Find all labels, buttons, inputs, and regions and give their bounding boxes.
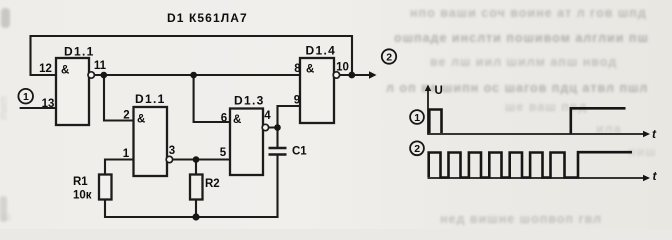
svg-text:2: 2 [123, 110, 129, 122]
svg-text:D1.1: D1.1 [135, 92, 166, 106]
svg-text:t: t [653, 169, 658, 183]
svg-text:12: 12 [39, 63, 52, 75]
svg-text:4: 4 [264, 110, 271, 122]
svg-text:шиш: шиш [0, 96, 10, 120]
svg-text:ошпаде инслти пошивом алглии п: ошпаде инслти пошивом алглии пш [394, 31, 649, 45]
svg-text:C1: C1 [292, 146, 307, 158]
svg-text:3: 3 [169, 145, 175, 157]
svg-text:2: 2 [386, 51, 392, 63]
svg-text:&: & [306, 64, 314, 76]
svg-text:13: 13 [42, 98, 55, 110]
svg-text:11: 11 [94, 60, 107, 72]
svg-text:10: 10 [336, 62, 349, 74]
svg-text:2: 2 [414, 143, 420, 155]
svg-text:D1.1: D1.1 [64, 45, 95, 59]
svg-text:л оп ва шипн ос шагов пдц атв: л оп ва шипн ос шагов пдц атвл пшл [386, 81, 648, 95]
svg-text:&: & [233, 114, 241, 126]
svg-text:1: 1 [23, 91, 29, 103]
svg-text:&: & [61, 65, 69, 77]
svg-text:10к: 10к [73, 190, 92, 202]
svg-text:1: 1 [123, 148, 130, 160]
svg-text:D1.4: D1.4 [306, 44, 337, 58]
svg-text:&: & [137, 114, 145, 126]
svg-text:нед вишне шопвоп гвл: нед вишне шопвоп гвл [440, 212, 602, 226]
svg-text:D1.3: D1.3 [234, 94, 265, 108]
svg-text:1: 1 [414, 112, 420, 124]
svg-text:R2: R2 [205, 178, 220, 190]
svg-text:9: 9 [294, 95, 300, 107]
svg-text:нпо ваши соч воине ат л гов ш: нпо ваши соч воине ат л гов шпд [410, 6, 647, 20]
svg-text:ве лш иил шилм апш нвод: ве лш иил шилм апш нвод [430, 55, 617, 69]
svg-text:t: t [652, 127, 657, 141]
svg-text:8: 8 [294, 63, 301, 75]
svg-text:D1 К561ЛА7: D1 К561ЛА7 [167, 11, 248, 25]
svg-text:R1: R1 [73, 176, 88, 188]
svg-text:6: 6 [221, 113, 227, 125]
svg-text:ниш: ниш [628, 145, 657, 159]
svg-text:U: U [435, 85, 443, 97]
svg-text:5: 5 [220, 147, 227, 159]
